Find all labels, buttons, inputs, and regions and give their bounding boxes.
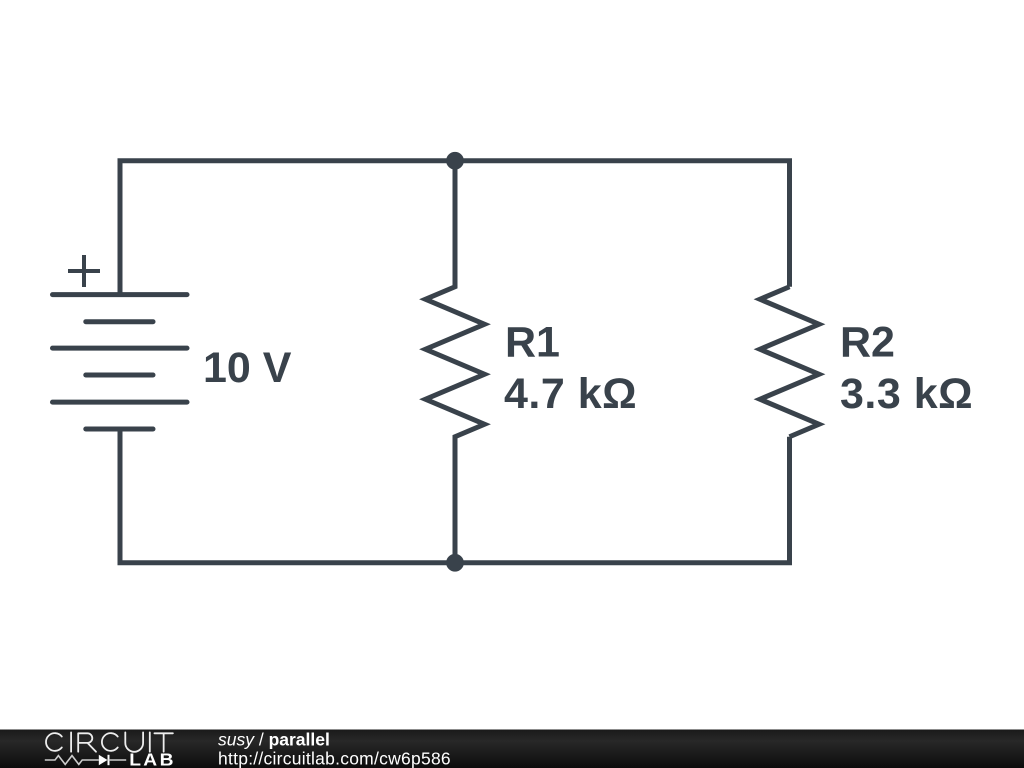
battery plus sign [68,255,100,287]
wire battery plus to node A (top-left) [120,161,455,295]
logo CIRCUIT wordmark (drawn thin letters) [46,732,173,751]
svg-text:susy / parallel: susy / parallel [218,730,330,750]
footer bar [0,730,1024,768]
wire node A to R2 top (top-right) [455,161,790,287]
svg-text:http://circuitlab.com/cw6p586: http://circuitlab.com/cw6p586 [218,749,451,768]
node B junction dot [446,554,464,572]
wire R2 bottom to node B (bottom-right) [455,437,790,563]
svg-text:4.7 kΩ: 4.7 kΩ [504,370,637,418]
svg-text:LAB: LAB [129,749,176,768]
resistor R2 body [760,287,819,437]
battery V1 plates [53,295,188,429]
svg-text:R1: R1 [505,318,560,366]
logo diode [99,755,108,765]
logo resistor zigzag [45,756,99,765]
resistor R1 body [426,161,485,563]
node A junction dot [446,152,464,170]
svg-text:10 V: 10 V [203,344,292,392]
wire node B to battery minus (bottom-left) [120,429,455,563]
svg-text:3.3 kΩ: 3.3 kΩ [840,370,973,418]
svg-text:R2: R2 [840,318,895,366]
